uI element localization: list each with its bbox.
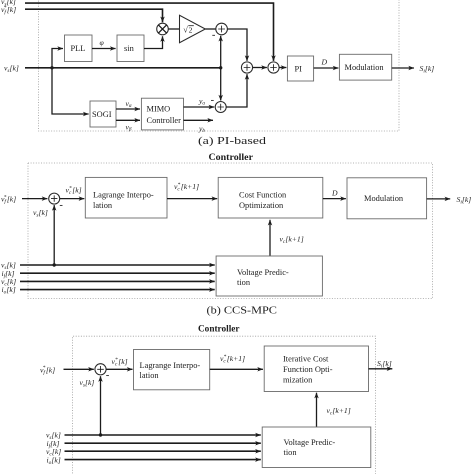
node label S_i[k] (b) [457, 195, 472, 206]
wire Modulation to S_i[k] (a) [392, 67, 414, 69]
svg-text:Controller: Controller [147, 116, 182, 125]
wire v_s junction down to S4 [220, 68, 222, 101]
wire S3 to PI [279, 67, 286, 69]
label v_c[k+1] (b) [280, 235, 304, 246]
svg-text:Iterative Cost: Iterative Cost [283, 355, 329, 364]
svg-text:Modulation: Modulation [364, 194, 404, 203]
junction dot (c) [99, 433, 102, 436]
sum S1 [216, 23, 228, 35]
node label i_f[k] input (c) [47, 439, 60, 450]
wire junction up to sum (c) [100, 376, 102, 435]
node label v_s[k] input (c) [46, 431, 61, 442]
label v_c*[k] (b) [66, 185, 82, 196]
wire S4 to S2 [226, 74, 247, 107]
wire v_c[k] to Voltage Prediction (c) [65, 450, 261, 452]
node label i_o[k] input (c) [47, 455, 61, 466]
label v_s[k] (c) [80, 378, 95, 389]
wire S2 to S3 [253, 67, 267, 69]
node label v_s[k] input (b) [1, 261, 16, 272]
wire sum to Lagrange (c) [106, 368, 132, 370]
label D (b) [331, 189, 338, 198]
svg-text:Function Opti-: Function Opti- [283, 365, 333, 374]
node label i_f[k] input (b) [2, 269, 15, 280]
svg-text:lation: lation [93, 201, 113, 210]
node label vhat_s[k] [1, 0, 16, 7]
wire v_s[k] horizontal [25, 67, 221, 69]
svg-text:vs[k]: vs[k] [80, 378, 95, 389]
wire multiplier to gain [168, 28, 179, 30]
wire PLL to sin [92, 48, 116, 50]
svg-text:Optimization: Optimization [239, 201, 284, 210]
controller dashed box (c) [73, 336, 376, 474]
block Modulation (b) [347, 178, 427, 219]
wire i_f[k] to Voltage Prediction (c) [65, 442, 261, 444]
svg-text:√: √ [183, 26, 188, 35]
node label v_f*[k] (b) [1, 194, 16, 205]
node label v_c[k] input (c) [46, 447, 61, 458]
svg-text:2: 2 [189, 25, 193, 34]
wire v_s junction up to S1 [220, 36, 222, 68]
svg-text:vs[k]: vs[k] [4, 64, 19, 75]
caption (b) CCS-MPC [207, 305, 278, 316]
controller dashed box (b) [28, 163, 433, 299]
minus sign at sum (b) [60, 204, 63, 206]
svg-text:φ: φ [100, 38, 105, 47]
wire y_a to sum S4 [184, 106, 215, 108]
label Controller (b) [209, 153, 254, 163]
svg-text:Lagrange Interpo-: Lagrange Interpo- [140, 361, 201, 370]
block MIMO Controller [141, 98, 183, 130]
label v_c*[k+1] (b) [174, 182, 199, 193]
junction dot at v_s branch [50, 66, 53, 69]
wire Voltage Prediction to Cost (b) [269, 220, 271, 256]
svg-text:vc*[k]: vc*[k] [66, 185, 82, 196]
wire Cost to Modulation (b) [323, 198, 346, 200]
svg-text:Modulation: Modulation [345, 63, 385, 72]
svg-text:io[k]: io[k] [2, 285, 16, 296]
block Lagrange Interpolation (c) [134, 350, 210, 390]
wire SOGI v_alpha to MIMO [116, 108, 140, 110]
svg-text:Voltage Predic-: Voltage Predic- [237, 268, 289, 277]
label D (a) [321, 58, 328, 67]
svg-text:Controller: Controller [209, 153, 254, 163]
wire v_s[k] to Voltage Prediction (c) [65, 434, 261, 436]
wire sum to Lagrange (b) [60, 198, 85, 200]
node label v_s[k] [4, 64, 19, 75]
junction dot (b) [53, 263, 56, 266]
wire v_f*[k] to multiplier [25, 9, 163, 22]
wire vhat_s[k] to sum S3 [25, 3, 274, 61]
svg-text:MIMO: MIMO [147, 105, 171, 114]
svg-text:Si[k]: Si[k] [377, 359, 392, 370]
svg-text:Controller: Controller [198, 324, 240, 334]
wire v_s to SOGI [52, 68, 89, 114]
node label S_i[k] (c) [377, 359, 392, 370]
wire SOGI v_beta to MIMO [116, 119, 140, 121]
wire v_s to PLL [52, 49, 63, 68]
multiplier circle [157, 23, 169, 35]
svg-text:D: D [321, 58, 328, 67]
label v_s[k] (b) [33, 208, 48, 219]
wire v_s[k] to Voltage Prediction (b) [20, 264, 215, 266]
svg-text:sin: sin [124, 44, 135, 53]
block Voltage Prediction (c) [262, 427, 371, 468]
minus sign at sum (c) [106, 375, 109, 377]
wire Iterative Cost to S_i[k] (c) [369, 368, 393, 370]
svg-text:SOGI: SOGI [92, 110, 112, 119]
label v_beta [126, 123, 132, 133]
svg-text:D: D [331, 189, 338, 198]
label y_b [198, 124, 205, 134]
wire i_o[k] to Voltage Prediction (c) [65, 459, 261, 461]
wire v_s junction up to sum (b) [53, 205, 55, 265]
svg-text:(b) CCS-MPC: (b) CCS-MPC [207, 305, 278, 316]
node label v_f*[k] [1, 5, 16, 16]
sum S2 [241, 62, 252, 73]
block PI [287, 56, 313, 81]
wire gain to sum S1 [205, 28, 216, 30]
wire i_o[k] to Voltage Prediction (b) [20, 289, 215, 291]
label v_alpha [126, 99, 132, 109]
wire S1 to S2 [227, 29, 247, 61]
label v_c*[k+1] (c) [220, 354, 245, 365]
svg-text:PLL: PLL [71, 44, 86, 53]
wire y_b output [184, 119, 214, 121]
wire Lagrange to Cost Function (b) [167, 198, 217, 200]
svg-text:vf*[k]: vf*[k] [1, 194, 16, 205]
wire i_f[k] to Voltage Prediction (b) [20, 272, 215, 274]
sum S3 [268, 62, 279, 73]
block Iterative Cost Function Optimization (c) [264, 346, 368, 392]
svg-text:lation: lation [140, 371, 160, 380]
sum junction (c) [95, 364, 106, 375]
node label S_i[k] (a) [420, 64, 435, 75]
svg-text:tion: tion [284, 448, 298, 457]
label v_c*[k] (c) [112, 357, 128, 368]
node label v_f*[k] (c) [40, 365, 55, 376]
sum junction (b) [49, 193, 60, 204]
junction dot at v_s end [219, 66, 222, 69]
wire v_f*[k] to sum (b) [22, 198, 47, 200]
svg-text:vs[k]: vs[k] [33, 208, 48, 219]
svg-text:vf*[k]: vf*[k] [1, 5, 16, 16]
block PLL [65, 35, 93, 62]
block Voltage Prediction (b) [216, 256, 322, 296]
node label i_o[k] input (b) [2, 285, 16, 296]
wire v_c[k] to Voltage Prediction (b) [20, 280, 215, 282]
label phi [100, 38, 105, 47]
svg-text:vc*[k+1]: vc*[k+1] [220, 354, 245, 365]
svg-text:Voltage Predic-: Voltage Predic- [284, 438, 336, 447]
svg-text:mization: mization [283, 376, 313, 385]
svg-text:Lagrange Interpo-: Lagrange Interpo- [93, 191, 154, 200]
minus sign at S1 [212, 34, 215, 36]
wire v_f*[k] to sum (c) [64, 368, 94, 370]
svg-text:Si[k]: Si[k] [457, 195, 472, 206]
block Cost Function Optimization (b) [218, 177, 323, 218]
svg-text:vf*[k]: vf*[k] [40, 365, 55, 376]
block Modulation (a) [339, 54, 391, 80]
svg-text:vc*[k+1]: vc*[k+1] [174, 182, 199, 193]
controller dashed box (a) [39, 0, 400, 131]
label v_c[k+1] (c) [327, 406, 351, 417]
wire Voltage Prediction to Iterative Cost (c) [316, 393, 318, 427]
wire Lagrange to Iterative Cost (c) [210, 368, 263, 370]
block Lagrange Interpolation (b) [85, 177, 167, 218]
wire PI to Modulation [314, 67, 339, 69]
caption (a) PI-based [198, 136, 267, 147]
svg-text:Si[k]: Si[k] [420, 64, 435, 75]
svg-text:vc*[k]: vc*[k] [112, 357, 128, 368]
svg-text:Cost Function: Cost Function [239, 191, 287, 200]
svg-text:tion: tion [237, 278, 251, 287]
wire Modulation to S_i[k] (b) [427, 198, 451, 200]
svg-text:(a) PI-based: (a) PI-based [198, 136, 267, 147]
label y_a [198, 97, 205, 107]
block SOGI [90, 101, 116, 127]
sum S4 [215, 102, 226, 113]
svg-text:io[k]: io[k] [47, 455, 61, 466]
svg-text:PI: PI [295, 65, 303, 74]
block sin [117, 35, 144, 62]
gain sqrt2 triangle [180, 15, 206, 42]
label Controller (c) [198, 324, 240, 334]
minus sign at S4 [211, 99, 214, 101]
wire sin to multiplier [144, 36, 163, 48]
node label v_c[k] input (b) [1, 277, 16, 288]
